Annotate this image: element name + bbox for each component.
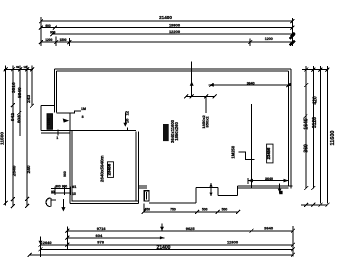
- outer walls: [41, 69, 292, 213]
- svg-text:3640: 3640: [264, 225, 274, 230]
- node tick left mid v3: [17, 111, 21, 115]
- node tick L2 left: [39, 26, 43, 30]
- svg-text:942: 942: [10, 113, 16, 121]
- node tick left v5 bottom: [30, 104, 34, 108]
- node tick rowE right: [291, 253, 295, 257]
- wall lintel a: [139, 185, 147, 187]
- door arc: [46, 198, 50, 207]
- door cluster v1: [54, 187, 56, 196]
- label box left room: [108, 162, 114, 178]
- svg-text:1500: 1500: [59, 38, 66, 42]
- interior dims and annotations: [46, 62, 291, 210]
- svg-text:12200: 12200: [169, 29, 181, 34]
- node tick right v1 a: [304, 83, 308, 87]
- node tick L3 left: [50, 32, 54, 36]
- svg-text:90: 90: [51, 190, 55, 194]
- svg-text:1M250: 1M250: [231, 145, 236, 158]
- wire v5: [31, 66, 33, 106]
- node junction tick: [288, 84, 291, 86]
- wall interior horiz double a: [41, 130, 70, 132]
- wire row B: [67, 237, 164, 239]
- node tick rowA right: [291, 229, 295, 233]
- wire v3: [19, 66, 21, 137]
- node tick left top v1: [4, 67, 8, 71]
- wire v2: [312, 66, 314, 189]
- node tick right bot v4: [326, 203, 330, 207]
- wire v3: [319, 66, 321, 203]
- node tick L1 left: [39, 19, 43, 23]
- node tick left bot v1: [4, 201, 8, 205]
- column door frame: [144, 191, 149, 201]
- wall left inner: [56, 71, 58, 113]
- wire left boundary C: [40, 237, 42, 258]
- wall interior horiz double b: [41, 132, 70, 134]
- svg-text:9625: 9625: [186, 226, 196, 231]
- top dim chain: [41, 17, 292, 46]
- dim wall cross marker: [279, 184, 281, 193]
- node tick: [249, 39, 251, 47]
- svg-text:900: 900: [62, 184, 68, 188]
- svg-text:1200: 1200: [45, 38, 52, 42]
- svg-text:450: 450: [144, 208, 150, 212]
- wall notch right: [236, 186, 238, 195]
- wall bottom-right inner: [237, 187, 288, 189]
- wire v4: [26, 66, 28, 207]
- wire L3: [52, 33, 292, 35]
- svg-text:21400: 21400: [159, 15, 172, 20]
- node tick smallrow c: [216, 210, 220, 214]
- node divider arrow A: [161, 224, 163, 231]
- door cluster v3: [69, 187, 71, 196]
- wall notch left: [217, 187, 219, 195]
- wall bottom-right outer: [237, 185, 292, 187]
- node tick left top v4: [25, 67, 29, 71]
- svg-text:19900: 19900: [169, 23, 181, 28]
- node tick gap right: [213, 94, 217, 98]
- svg-text:808: 808: [17, 115, 23, 123]
- wire v1: [5, 66, 7, 206]
- wall recess right vert: [195, 187, 197, 203]
- wall left room right a: [135, 132, 137, 201]
- svg-text:23456: 23456: [107, 163, 112, 175]
- node tick rowC a: [65, 243, 69, 247]
- svg-text:15: 15: [72, 192, 76, 196]
- svg-text:500: 500: [202, 208, 208, 212]
- arrow partition left: [209, 83, 214, 86]
- arrow rowA divider: [160, 227, 164, 231]
- column door frame mark: [146, 192, 148, 200]
- node tick L2 mid: [53, 26, 57, 30]
- label box right room: [267, 144, 273, 163]
- wire row E: [30, 254, 293, 256]
- arrow marker211 up: [209, 183, 212, 186]
- wire row A: [67, 230, 293, 232]
- arrow wall cross: [278, 189, 282, 193]
- arrow door swing: [61, 207, 65, 211]
- svg-text:850x2: 850x2: [205, 116, 210, 128]
- node tick gap left: [184, 94, 188, 98]
- arrow rowB end: [160, 236, 164, 239]
- svg-text:2640: 2640: [11, 165, 17, 176]
- node tick left bot v4: [25, 197, 29, 201]
- arrowheads: [39, 82, 289, 245]
- node tick rowE left: [28, 253, 32, 257]
- node tick rbot a: [304, 203, 308, 207]
- label boxes: [47, 114, 273, 178]
- wire row D: [41, 248, 293, 250]
- door tick cross: [51, 199, 56, 201]
- svg-text:21400: 21400: [157, 245, 171, 251]
- node tick gap b: [204, 94, 208, 98]
- svg-text:16: 16: [125, 118, 130, 123]
- svg-text:750: 750: [170, 208, 176, 212]
- wire L2: [41, 27, 292, 29]
- node tick L1 right: [290, 19, 294, 23]
- svg-text:500: 500: [222, 208, 228, 212]
- svg-text:11600: 11600: [330, 131, 336, 146]
- wire top tick line: [4, 68, 33, 70]
- interior walls: [41, 85, 289, 203]
- svg-text:900: 900: [63, 171, 67, 177]
- node tick L4 left: [39, 40, 43, 44]
- svg-text:360: 360: [303, 144, 309, 153]
- wall left room right b: [138, 132, 140, 204]
- node tick right bot v1: [304, 186, 308, 190]
- wire v4: [327, 66, 329, 203]
- dim small vert: [124, 113, 126, 126]
- elbow right room: [239, 152, 255, 159]
- node tick right bot v2: [311, 186, 315, 190]
- wall interior horiz single: [70, 129, 136, 131]
- node tick smallrow b: [195, 210, 199, 214]
- door leaf: [50, 198, 52, 207]
- door cluster line2: [51, 192, 71, 194]
- left dim chain: [4, 66, 33, 207]
- svg-text:604: 604: [96, 233, 103, 238]
- right dim chain: [301, 66, 329, 205]
- svg-text:9716: 9716: [97, 226, 107, 231]
- arrow interior door: [63, 118, 70, 122]
- wire row C: [41, 244, 293, 246]
- svg-text:1850x260: 1850x260: [174, 121, 179, 140]
- node tick rowC right: [291, 243, 295, 247]
- svg-text:49: 49: [16, 65, 20, 69]
- wall bottom-right single: [196, 186, 218, 188]
- node tick right top v1: [304, 68, 308, 72]
- door swing vert: [62, 199, 64, 210]
- node tick L4 b: [67, 40, 71, 44]
- svg-text:11500: 11500: [0, 132, 6, 145]
- node ext br left: [247, 178, 249, 184]
- svg-text:900: 900: [55, 185, 61, 189]
- node tick left mid v2: [11, 103, 15, 107]
- arrow br dim right: [284, 179, 289, 183]
- node tick: [55, 37, 57, 47]
- node tick right top v4: [326, 68, 330, 72]
- node tick rbot b: [311, 203, 315, 207]
- node blob tr1: [290, 33, 295, 39]
- svg-text:978: 978: [97, 240, 104, 245]
- wire left boundary AB: [66, 227, 68, 250]
- arrow marker211 dn: [209, 193, 212, 196]
- middle black label box: [163, 124, 169, 141]
- arrow stub up: [190, 82, 194, 86]
- svg-text:1: 1: [56, 136, 58, 140]
- dim stub top middle: [191, 62, 193, 97]
- node tick rowD left: [39, 247, 43, 251]
- node tick left top v2: [11, 67, 15, 71]
- node tick right v1 b: [303, 115, 307, 119]
- svg-text:23456: 23456: [266, 147, 271, 159]
- node tick L4 c: [248, 40, 252, 44]
- wire v1: [305, 66, 307, 189]
- svg-text:3640: 3640: [265, 177, 273, 181]
- node blob tr2: [290, 41, 295, 46]
- leader left room door: [70, 111, 81, 113]
- svg-text:1M: 1M: [81, 107, 86, 111]
- node tick left bot v2b: [11, 204, 15, 208]
- node tick rowA left: [65, 229, 69, 233]
- door cluster v2: [64, 187, 66, 196]
- bottom dim chain: [30, 212, 293, 257]
- node tick L4 a: [54, 40, 58, 44]
- svg-text:8: 8: [82, 115, 84, 119]
- node tick L2 right: [290, 26, 294, 30]
- wire left boundary: [40, 17, 42, 46]
- svg-text:2640: 2640: [43, 240, 53, 245]
- node tick L4 right: [290, 40, 294, 44]
- svg-text:2640x5940m: 2640x5940m: [100, 156, 105, 183]
- wall partition top-right: [209, 84, 289, 86]
- node tick rowB left: [65, 236, 69, 240]
- node tick left bot v4b: [25, 204, 29, 208]
- wire top tick line: [302, 69, 328, 71]
- dim wall cross marker2: [210, 183, 212, 196]
- svg-text:243: 243: [26, 94, 32, 102]
- wall left outer: [53, 69, 55, 113]
- node tick right top v3: [318, 68, 322, 72]
- wall jog: [57, 112, 70, 114]
- svg-text:1640: 1640: [304, 118, 310, 129]
- svg-text:12: 12: [23, 65, 27, 69]
- wire v2: [12, 66, 14, 207]
- node tick bump bottom: [57, 130, 59, 136]
- arrow small dim: [123, 123, 127, 127]
- dim bottom right line: [248, 180, 289, 182]
- wall recess line: [149, 202, 196, 204]
- wall bump left: [40, 106, 42, 131]
- wall top inner: [57, 70, 289, 72]
- label box bump: [47, 114, 53, 130]
- node tick: [68, 38, 70, 46]
- wire small row: [144, 211, 239, 213]
- wall bump top: [41, 105, 55, 107]
- wire ext doorframe: [143, 203, 145, 212]
- wire L1: [41, 20, 292, 22]
- wall vestibule right a: [69, 113, 71, 203]
- node tick rowC left: [39, 243, 43, 247]
- svg-text:12600: 12600: [227, 239, 239, 244]
- wall vestibule right b: [71, 130, 73, 201]
- wall right inner: [287, 71, 289, 186]
- label box middle filled: [163, 124, 169, 141]
- wire right boundary: [291, 18, 293, 46]
- node tick gap a: [190, 94, 194, 98]
- node tick left top v3: [18, 67, 22, 71]
- svg-text:1200: 1200: [265, 37, 273, 41]
- svg-text:600: 600: [45, 24, 51, 28]
- node tick rowA mid: [249, 229, 253, 233]
- wall right room left: [251, 104, 253, 188]
- wire right boundary: [292, 226, 294, 257]
- svg-text:900: 900: [50, 30, 56, 34]
- node ext br right: [288, 178, 290, 184]
- wall top outer: [54, 68, 291, 70]
- arrow rowC left: [39, 241, 43, 245]
- node tick right bot v3: [318, 203, 322, 207]
- dim leader mid: [205, 96, 207, 112]
- wall bottom-left outer: [70, 202, 139, 204]
- node tick right top v2: [311, 68, 315, 72]
- wire L4: [41, 41, 292, 43]
- wall right outer: [290, 69, 292, 189]
- node tick smallrow d: [236, 210, 240, 214]
- svg-text:420: 420: [313, 96, 319, 105]
- wall notch bottom: [218, 194, 237, 196]
- svg-text:5940: 5940: [17, 87, 23, 98]
- svg-text:240: 240: [26, 165, 32, 173]
- svg-text:12: 12: [125, 110, 130, 115]
- node tick smallrow a: [142, 210, 146, 214]
- arrow br dim left: [248, 179, 253, 183]
- wall bottom-left inner: [72, 200, 139, 202]
- svg-text:1530: 1530: [47, 118, 51, 126]
- node tick L3 right: [290, 32, 294, 36]
- node tick left top v5: [30, 67, 34, 71]
- svg-text:3016: 3016: [11, 82, 17, 93]
- node tick partition left: [209, 83, 213, 87]
- node tick rowD right: [291, 247, 295, 251]
- wall step small: [126, 128, 128, 131]
- wire bottom tick line: [301, 204, 328, 206]
- dim gap line: [186, 95, 215, 97]
- node wall cross blob: [279, 191, 282, 194]
- door cluster line1: [51, 188, 71, 190]
- svg-text:3128: 3128: [312, 117, 318, 128]
- node tick left bot v2: [11, 197, 15, 201]
- wall lintel b: [139, 187, 147, 189]
- node tick partition right: [286, 83, 290, 87]
